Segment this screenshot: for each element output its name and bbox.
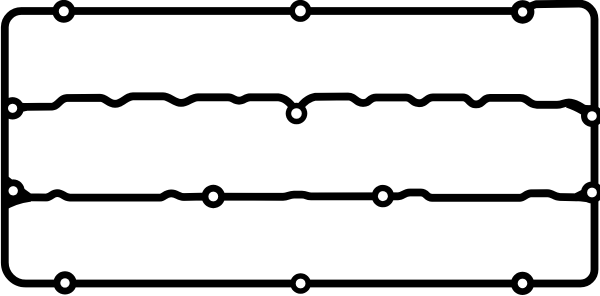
junction fillet lower-right [575,181,596,204]
junction fillet upper-left [4,97,27,119]
bolt hole bottom-right [511,272,534,295]
bolt hole upper-bar right [581,105,600,127]
bolt hole bottom-left [53,271,76,294]
upper wavy bar [14,96,590,113]
bolt hole upper-bar center [286,103,308,125]
bolt hole lower-bar 2 [372,185,394,207]
lower bar [15,193,590,198]
bolt hole lower-bar right [581,182,600,204]
junction fillet lower-left [4,173,31,211]
bolt hole top-right [511,0,535,24]
junction fillet upper-right [566,101,596,134]
bolt hole bottom-middle [290,273,311,294]
bolt hole lower-bar 1 [202,185,225,208]
bolt hole upper-bar left [1,97,23,119]
hole centers (white) [59,6,69,16]
bolt hole top-middle [289,0,311,22]
bolt hole top-left [52,0,75,23]
bolt hole lower-bar left [2,179,25,202]
